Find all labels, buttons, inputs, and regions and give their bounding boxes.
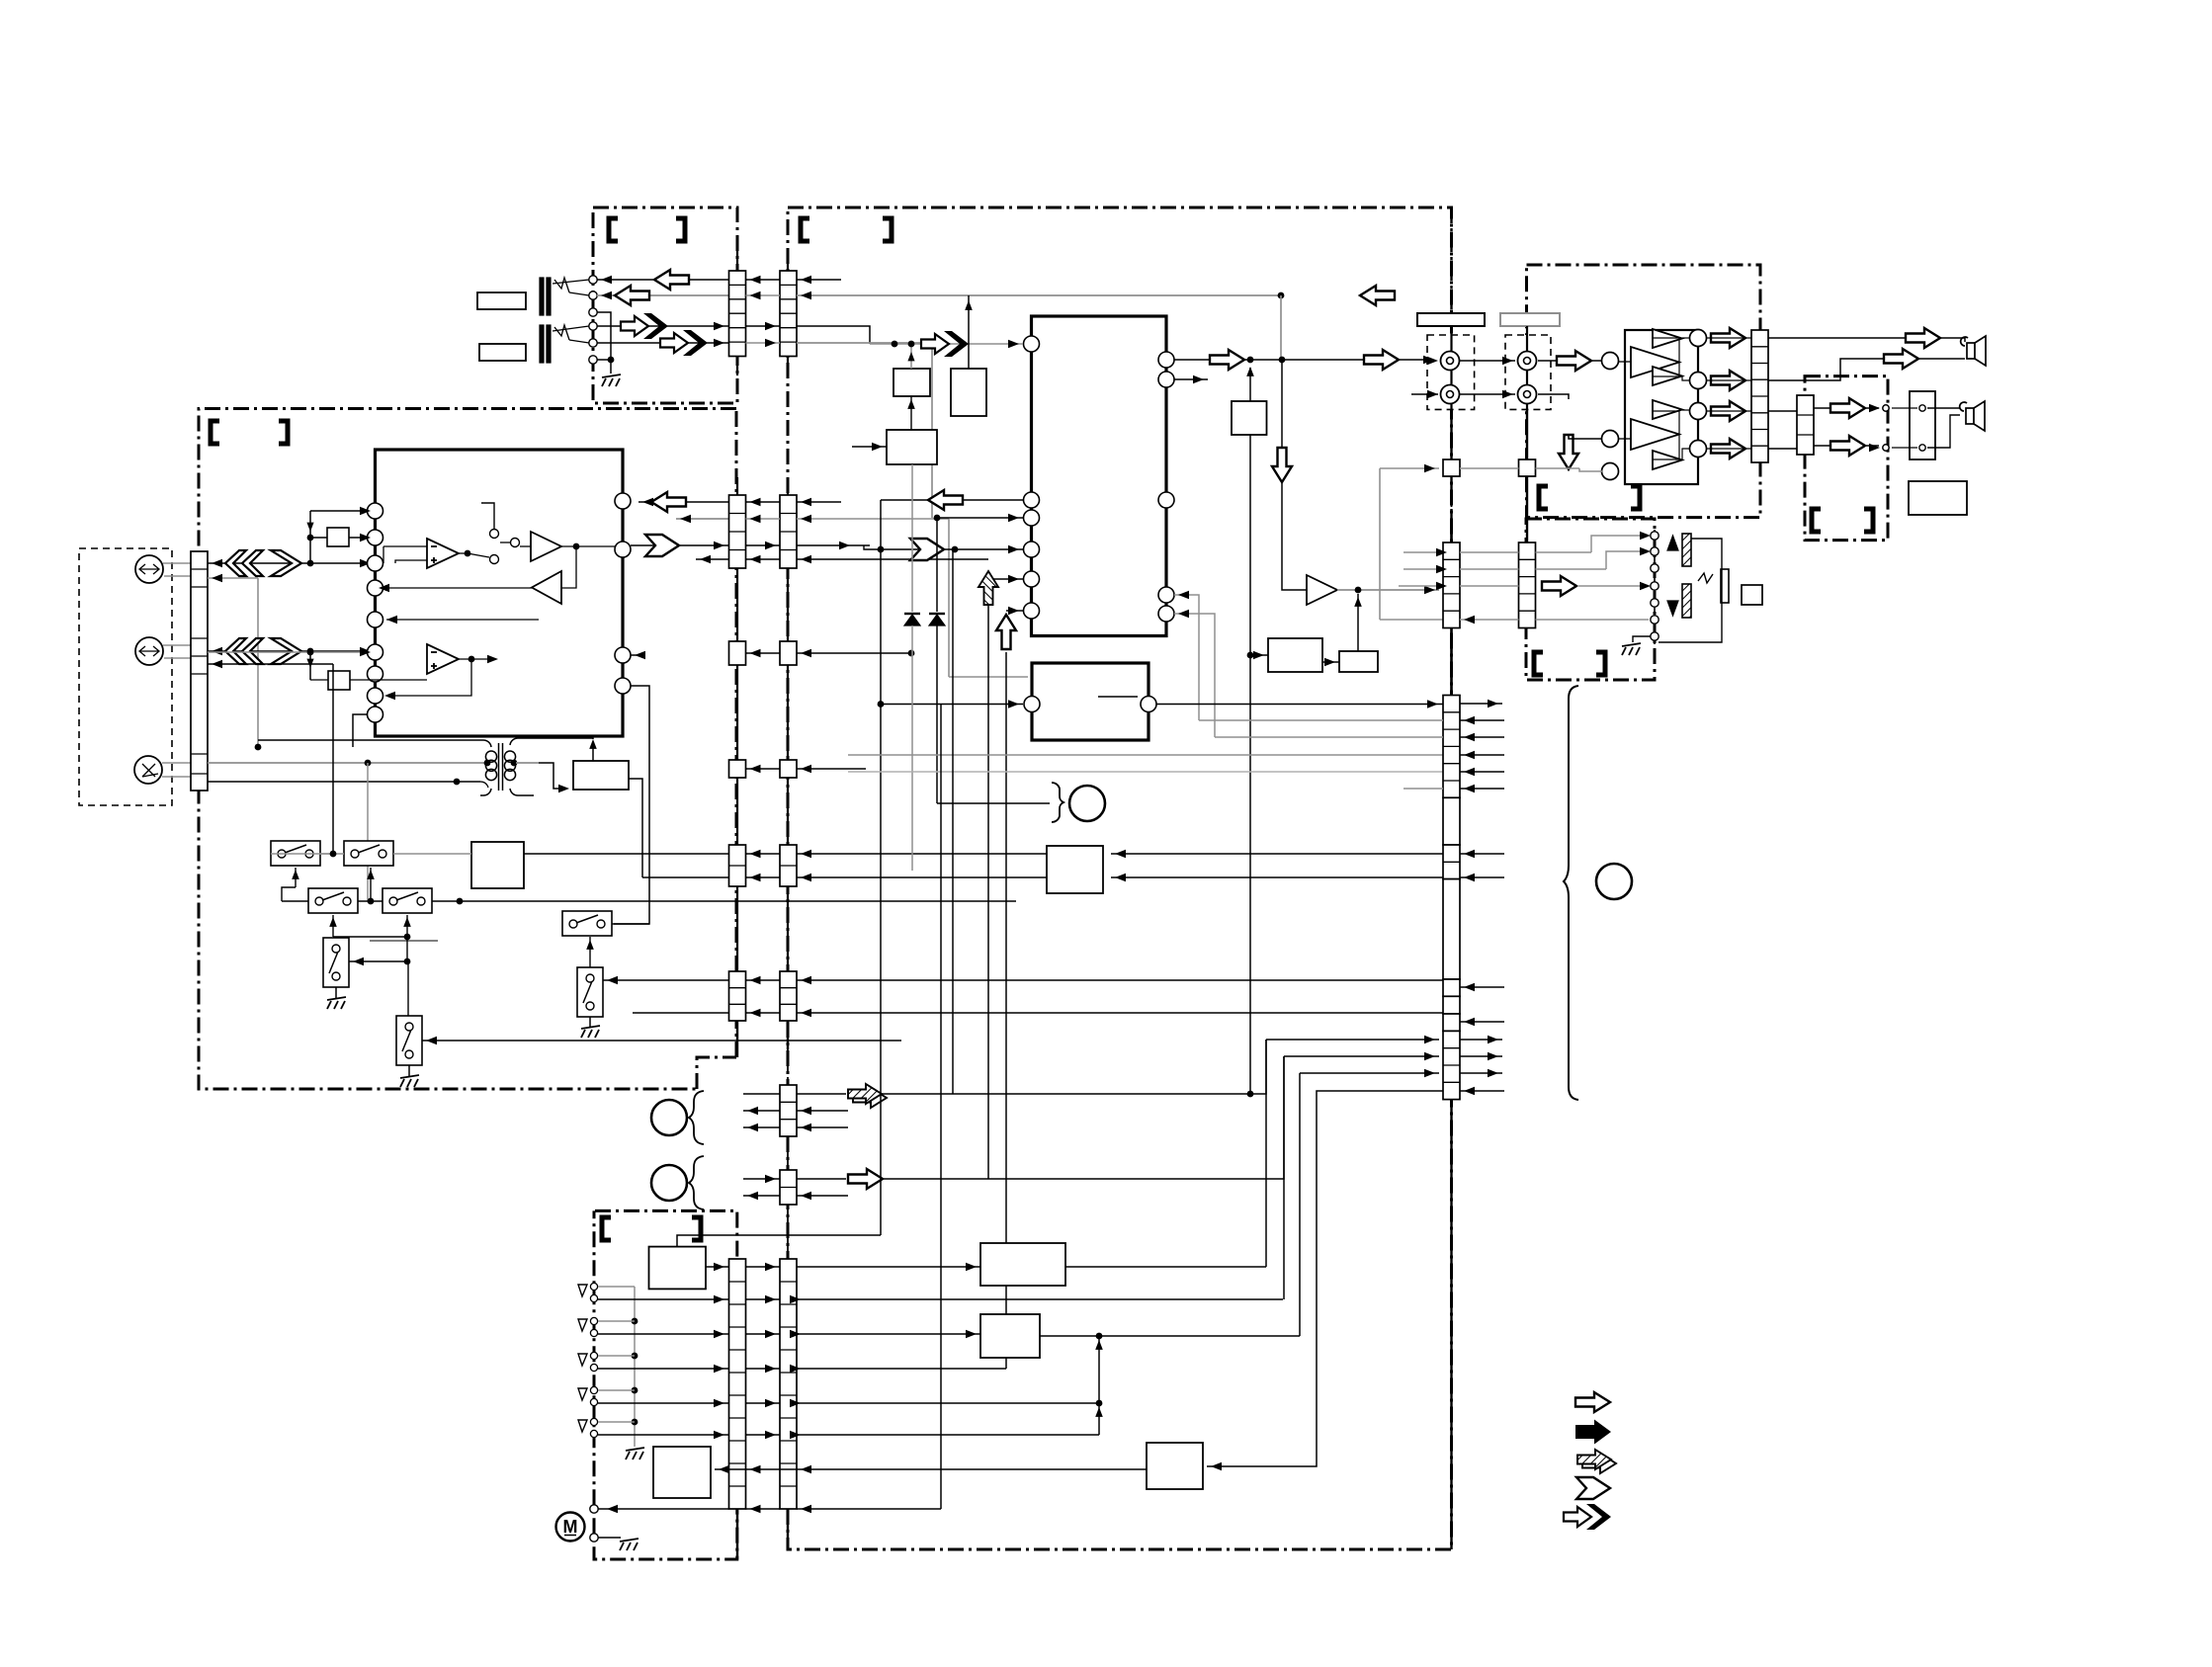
CN3 body joins <box>736 568 738 641</box>
play head (bottom) <box>1682 584 1691 618</box>
speaker SP1 (right channel) <box>1961 336 1986 366</box>
CN4 body joins <box>787 568 789 641</box>
jack contact pins <box>589 276 597 284</box>
speaker SP2 (headphone out) <box>1927 407 1960 409</box>
tuner board brackets <box>211 421 219 444</box>
arrow up into SW2 <box>370 868 372 901</box>
switch S1 <box>490 530 499 539</box>
row570 FM antenna to U1 <box>208 562 367 564</box>
main board brackets <box>801 218 809 241</box>
head contact rail <box>1654 530 1656 644</box>
row1025 across long <box>746 1012 781 1014</box>
bus row1104 right stub <box>1460 1090 1504 1092</box>
jack J1 sleeve <box>540 278 544 315</box>
IC U3 body <box>1032 663 1149 740</box>
gray loop from headphone area <box>1380 467 1439 469</box>
bar label black <box>1417 313 1485 326</box>
row778 across <box>746 768 781 770</box>
strip tails <box>736 357 738 376</box>
bus leg above big strip <box>1450 627 1452 696</box>
T1 secondary bottom wire <box>510 789 534 795</box>
T1 primary wires <box>258 740 491 747</box>
U2 left pins <box>1024 336 1040 352</box>
gray row576 to head <box>1460 568 1519 570</box>
pin682 loop <box>386 659 471 696</box>
double arrow row330 <box>621 313 668 339</box>
vertical switch SWV1 <box>323 938 349 987</box>
legend hatched arrow <box>1577 1450 1616 1473</box>
block B3v (pll) <box>887 430 937 464</box>
row992 across long <box>746 979 781 981</box>
RCA dashed box 1 <box>1427 335 1475 409</box>
B9 output to bus riser <box>1065 1266 1266 1268</box>
x891 service vertical <box>880 500 882 1235</box>
jack J1 spring contact <box>554 278 569 292</box>
connector strip jack-out CN1 <box>729 271 746 357</box>
T1 secondary centre tap out gray <box>511 760 518 767</box>
antenna dashed box <box>79 548 172 805</box>
row 299 headphone R wire (gray) <box>597 294 729 296</box>
row566 from CN3 <box>696 558 729 560</box>
U2 pin602 gray return <box>1174 595 1199 720</box>
bus feeder row1052 <box>1266 1039 1439 1041</box>
B8 input arrows from bus rows <box>1111 853 1443 855</box>
SW2 right wire <box>393 853 471 855</box>
diode D2 <box>929 615 945 625</box>
riser 660-688 <box>309 652 311 680</box>
AM feed junction <box>457 781 480 783</box>
CN1-CN2 row330 link <box>746 325 781 327</box>
transformer core <box>498 743 500 791</box>
SWV2 feed from right <box>407 961 409 1016</box>
row399 between boxes <box>1460 393 1515 395</box>
bus gray stub rows g1 <box>1460 719 1504 721</box>
record head (top) <box>1682 534 1691 566</box>
diode D1 <box>904 615 920 625</box>
row583 FM return <box>208 577 258 579</box>
op-amp A1 <box>427 539 459 568</box>
amp connector strip CN6 <box>1751 330 1768 462</box>
amp tri small 3 <box>1653 400 1682 419</box>
CN5a row2 <box>743 1110 780 1112</box>
row552 to CN3 <box>631 544 729 546</box>
vertical x964 from chevron row <box>952 549 954 1094</box>
amp block frame <box>1625 330 1698 484</box>
CN5b row1 open arrow out <box>743 1178 780 1180</box>
SWV3 ground <box>589 1017 591 1027</box>
right bus big strip <box>1443 696 1460 798</box>
riser 544-570 <box>309 538 311 563</box>
head mount bar <box>1721 569 1729 603</box>
row508 link <box>746 501 781 503</box>
CN1-CN2 row299 link <box>746 294 781 296</box>
rows to headphone board <box>1768 410 1797 412</box>
board: tape head assembly box <box>1526 519 1655 680</box>
amp out open arrows <box>1711 328 1745 348</box>
amp board left border solid segments <box>1526 410 1528 460</box>
B6 to B7 arrow <box>1322 661 1339 663</box>
gray from amp square to amp circle3 <box>1536 467 1580 469</box>
arrow into RCA1 row365 <box>1427 357 1438 365</box>
gray stubs into CN8 left <box>1404 551 1443 553</box>
legend solid arrow <box>1575 1420 1611 1445</box>
IF1 output up <box>592 748 594 761</box>
amp tri small 4 <box>1653 451 1682 469</box>
row552 link <box>746 544 781 546</box>
service vertical to motor row <box>940 704 942 1509</box>
pin663 input from main <box>631 654 638 656</box>
U3 output row to bus <box>1156 704 1443 706</box>
FM chevron pair <box>212 559 222 567</box>
key bus ground <box>626 1448 644 1459</box>
gray rail row781 light <box>848 771 1443 773</box>
U2 right pins <box>1158 352 1174 368</box>
ground symbol (jack board) <box>602 375 621 386</box>
bus feeder row1086 <box>1300 1072 1439 1074</box>
head strip CN8 (on bus) <box>1443 542 1460 628</box>
A5 output row gray <box>1337 589 1439 591</box>
bus row1104 to B11 <box>1207 1091 1443 1466</box>
motor ground <box>598 1537 621 1539</box>
amp input circle 3 <box>1602 463 1619 480</box>
legend chevron arrow <box>1576 1477 1610 1499</box>
headphone jack rect <box>1910 391 1935 459</box>
vertical switch SWV2 <box>396 1016 422 1065</box>
legend open arrow <box>1575 1392 1610 1412</box>
jack J2 sleeve <box>540 325 544 363</box>
amp tri small 1 <box>1653 329 1682 348</box>
row525 gray from CN3 <box>676 518 729 520</box>
feed to SW1 row via x337 <box>332 664 334 854</box>
double arrow row347 <box>660 330 708 356</box>
B5 long down vertical <box>1249 435 1251 1094</box>
row661 across <box>746 652 781 654</box>
jack board brackets <box>609 218 618 241</box>
erase head square <box>1742 585 1762 605</box>
mid strip CN5a <box>780 1085 797 1136</box>
T1 primary centre tap gray <box>484 760 491 767</box>
triangle amp A5 <box>1307 575 1337 605</box>
SW5 right wire <box>612 923 649 925</box>
amp out rows into CN6 <box>1707 337 1751 339</box>
callout brace A <box>689 1091 704 1144</box>
transformer T1 primary coil <box>485 751 496 762</box>
jack ground drop <box>610 360 612 374</box>
head wiring right <box>1659 539 1722 642</box>
row399 stub into RCA1 <box>1411 393 1438 395</box>
S1 feedback wire <box>481 503 494 529</box>
vertical feed through RCA box1 <box>1450 326 1452 410</box>
row864 across to SWB <box>524 853 729 855</box>
row508 main side <box>797 501 841 503</box>
switch SW1 <box>271 841 320 866</box>
transformer T1 secondary coil <box>504 751 515 762</box>
open arrow row299 main <box>1360 286 1395 305</box>
gray link 585-756 <box>257 578 259 747</box>
amp tri big 1 <box>1631 347 1679 377</box>
U2 pin621 return <box>1174 614 1215 737</box>
A4 output <box>459 658 494 660</box>
row772 bar antenna gray <box>208 762 485 764</box>
r7 return row to CB2 <box>715 1468 1147 1470</box>
amp input circle 2 <box>1602 431 1619 448</box>
label box L2 <box>479 344 526 361</box>
bus leg above CN8 <box>1450 526 1452 542</box>
row672 AM return <box>208 663 333 665</box>
board: headphone jack board <box>1805 376 1888 541</box>
center strip CN3 <box>729 495 746 568</box>
jack ground bus wire <box>597 312 611 360</box>
switch SW5 <box>562 911 612 936</box>
callout circle A <box>651 1100 687 1135</box>
block B7 <box>1339 651 1378 672</box>
open arrow row283 <box>654 270 689 290</box>
A4 gray input row660 <box>208 651 367 653</box>
big callout brace <box>1564 686 1578 1100</box>
callout circle B <box>651 1165 687 1201</box>
row508 from CN3 (open arrow left) <box>638 501 729 503</box>
r6 riser into r5 junction <box>1096 1400 1103 1407</box>
motor contacts <box>590 1505 598 1513</box>
bus rows 864/888 right stubs <box>1460 853 1504 855</box>
open arrow row299 <box>615 286 649 305</box>
amp tri big 2 <box>1631 419 1679 450</box>
row525 link gray <box>746 518 781 520</box>
IC U2 main IC <box>1032 316 1167 636</box>
U2 right row384 stub <box>1174 378 1208 380</box>
U3 pins <box>1024 697 1040 712</box>
block B8 (system control) <box>1047 846 1103 893</box>
amp input circle 1 <box>1602 353 1619 370</box>
block B9 (bottom left) <box>980 1243 1065 1286</box>
row 283 headphone L wire <box>597 279 729 281</box>
SW1-SW2 link <box>320 853 344 855</box>
main left leg below CN11 <box>787 1509 789 1549</box>
board: main board <box>788 208 1452 1549</box>
gray row746 from U2 pin621 <box>1215 736 1443 738</box>
cassette r1 row <box>706 1266 729 1268</box>
CN1-CN2 row347 link <box>746 342 781 344</box>
label box right <box>1909 481 1967 515</box>
block SWB <box>471 842 524 888</box>
row593 with open arrow <box>1460 585 1519 587</box>
AM chevron pair <box>212 647 222 655</box>
B1v riser gray <box>910 344 912 369</box>
cassette strip CN11 <box>780 1259 797 1509</box>
board: cassette mechanism board <box>594 1210 737 1559</box>
cassette strip CN10 <box>729 1259 746 1509</box>
switch SW2 <box>344 841 393 866</box>
small square cell on amp border <box>1519 459 1536 476</box>
row566 link <box>746 558 781 560</box>
gray rail row764 <box>848 754 1443 756</box>
wires into jack <box>1892 407 1917 409</box>
switch SW3 <box>308 888 358 913</box>
azimuth spring <box>1698 573 1713 583</box>
row365 to amp open arrow <box>1538 360 1602 362</box>
RCA jacks box1 <box>1441 352 1460 371</box>
row552 main side to U2 348 via dblarrow <box>797 544 870 546</box>
bus rows 1052-1086 out stubs <box>1460 1039 1502 1041</box>
speaker R wire top <box>1768 338 1965 342</box>
bar label gray <box>1500 313 1560 326</box>
callout brace B <box>689 1156 704 1209</box>
black vertical through D2 <box>936 518 938 612</box>
block B6 <box>1268 638 1322 672</box>
SWV1 ground <box>335 987 337 998</box>
block B11 (counter) <box>1147 1443 1203 1489</box>
T1 secondary top wire w/ up arrow <box>510 738 593 745</box>
bus bottom dash leg <box>1450 1100 1452 1549</box>
RCA dashed box 2 <box>1505 335 1551 409</box>
down open arrow branch row364 <box>1281 360 1283 447</box>
block B10 <box>980 1314 1040 1358</box>
arrows up into SW3 SW4 <box>332 915 334 937</box>
row948 wire <box>333 936 407 938</box>
block B1v <box>893 369 930 396</box>
center strip CN4 <box>780 495 797 568</box>
B3v up arrow to B1v <box>910 396 912 430</box>
junction row299/row364 riser <box>1278 292 1285 299</box>
amp board brackets <box>1539 486 1548 509</box>
bus feeder row1069 <box>1284 1055 1439 1057</box>
mid strip CN5b <box>780 1170 797 1205</box>
row552 jog to chevron row <box>864 545 881 549</box>
cassette block CB1 <box>649 1247 707 1290</box>
row330 rec wire to U2 <box>797 326 870 344</box>
tuner connector strip CN0 <box>191 551 208 791</box>
U3 inner dash <box>1098 696 1138 698</box>
head ground wire <box>1633 636 1651 642</box>
speaker R wire bottom <box>1768 359 1965 380</box>
switch SW4 <box>383 888 432 913</box>
row566 main side <box>797 558 988 560</box>
row888 across <box>746 876 781 878</box>
CN5 link verticals <box>787 1136 789 1170</box>
row365 between boxes <box>1460 360 1515 362</box>
row283 stub on main board <box>797 279 841 281</box>
head strip CN9 (on head box) <box>1519 542 1536 628</box>
CN4 bottom leg <box>787 1021 789 1049</box>
gray vertical through D1 <box>911 464 913 612</box>
bus row798 left gray stub <box>1404 788 1443 790</box>
dbl arrow into U2 pin348 <box>870 343 1023 345</box>
motor feed row <box>598 1508 729 1510</box>
cassette key rows <box>598 1298 729 1300</box>
A3 wires <box>383 587 532 589</box>
SWV3 input arrow from right <box>607 976 618 984</box>
row525 main side gray <box>797 518 949 520</box>
resistor R2 <box>310 679 328 681</box>
op-amp A4 <box>427 644 459 674</box>
A1 inputs <box>383 545 427 547</box>
r2 riser x1299 <box>1283 1056 1285 1299</box>
inverse amp A3 <box>532 571 561 604</box>
vertical switch SWV3 <box>577 967 603 1017</box>
open up arrow row618 <box>1006 610 1023 612</box>
IC U1 tuner IC <box>376 450 624 736</box>
r5 riser into row1352 <box>1098 1336 1100 1403</box>
gray row729 from U2 pin602 <box>1199 719 1443 721</box>
board: jack board <box>593 208 737 403</box>
CN5a row3 <box>743 1126 780 1128</box>
row399 out + down arrow <box>1538 394 1569 399</box>
U1 pin517 top loop <box>310 510 367 512</box>
big callout circle <box>1596 864 1632 899</box>
gray row559 to head <box>1460 551 1519 553</box>
row659 AM in <box>208 650 367 652</box>
A1 output <box>459 552 468 554</box>
row299 gray monitor return wire <box>797 294 1281 296</box>
jack ground junction <box>608 357 615 364</box>
dash-dot gap on bus <box>1451 493 1453 509</box>
B6 input from vertical <box>1250 654 1268 656</box>
cassette board brackets <box>602 1217 611 1240</box>
row912 SW3-SW4 wiring <box>282 900 308 902</box>
B7 riser to A5 out <box>1357 594 1359 651</box>
antenna lead wires <box>163 562 191 564</box>
RCA jacks box2 <box>1518 352 1537 371</box>
B5 up arrow <box>1249 368 1251 401</box>
row795 bar antenna return <box>208 781 457 783</box>
resistor R1 <box>310 537 327 539</box>
U2 right row364 out <box>1174 359 1439 361</box>
IF1 to row888 link <box>629 779 642 877</box>
head contacts <box>1651 532 1659 540</box>
board: power amp board <box>1527 265 1761 518</box>
cassette block CB2 <box>653 1447 711 1498</box>
label box L1 <box>477 292 526 309</box>
headphone contacts <box>1883 405 1889 411</box>
B3v input arrow <box>852 446 887 448</box>
CN3 bottom leg to tuner corner <box>736 1021 738 1057</box>
B10 input arrow <box>966 1330 977 1338</box>
row347 rec gray wire <box>797 342 932 344</box>
amp A2 <box>531 532 561 561</box>
CN5b row2 <box>743 1195 780 1197</box>
jack internal wires <box>553 280 589 284</box>
row524 into U2 <box>937 517 1023 519</box>
key common gray bus <box>634 1287 636 1447</box>
CN5a row1 hatched out <box>743 1093 780 1095</box>
block IF1 (detector) <box>573 761 629 790</box>
cassette bottom leg CN10 <box>736 1509 738 1559</box>
CN1-CN2 row283 link <box>746 279 781 281</box>
key stub wires gray <box>598 1286 635 1288</box>
jack J2 spring contact <box>554 325 569 340</box>
bus row999 stub <box>1460 986 1504 988</box>
block B5 (mute) <box>1232 401 1267 435</box>
board: tuner board <box>199 409 736 1090</box>
SWV3 feed up arrow <box>589 937 591 967</box>
block B2v (vco) <box>951 369 986 416</box>
svg-text:M: M <box>563 1517 578 1537</box>
bus row712 out stub <box>1460 703 1502 705</box>
headphone arrows <box>1814 407 1879 409</box>
U1 right pins <box>615 493 631 509</box>
pin694 wire to SW5 <box>614 686 649 924</box>
row 330 mic out wire <box>597 325 729 327</box>
head box brackets <box>1534 652 1543 675</box>
B2v riser to row299 <box>968 295 970 369</box>
antenna 2 circle <box>135 637 163 665</box>
SWV1 feed wire <box>349 960 407 962</box>
connector strip main-in CN2 <box>780 271 797 357</box>
amp output circles <box>1690 330 1707 347</box>
bus row1034 stub <box>1460 1021 1504 1023</box>
pin627 stub wire <box>386 619 539 621</box>
vertical feed through RCA box2 <box>1526 326 1528 410</box>
